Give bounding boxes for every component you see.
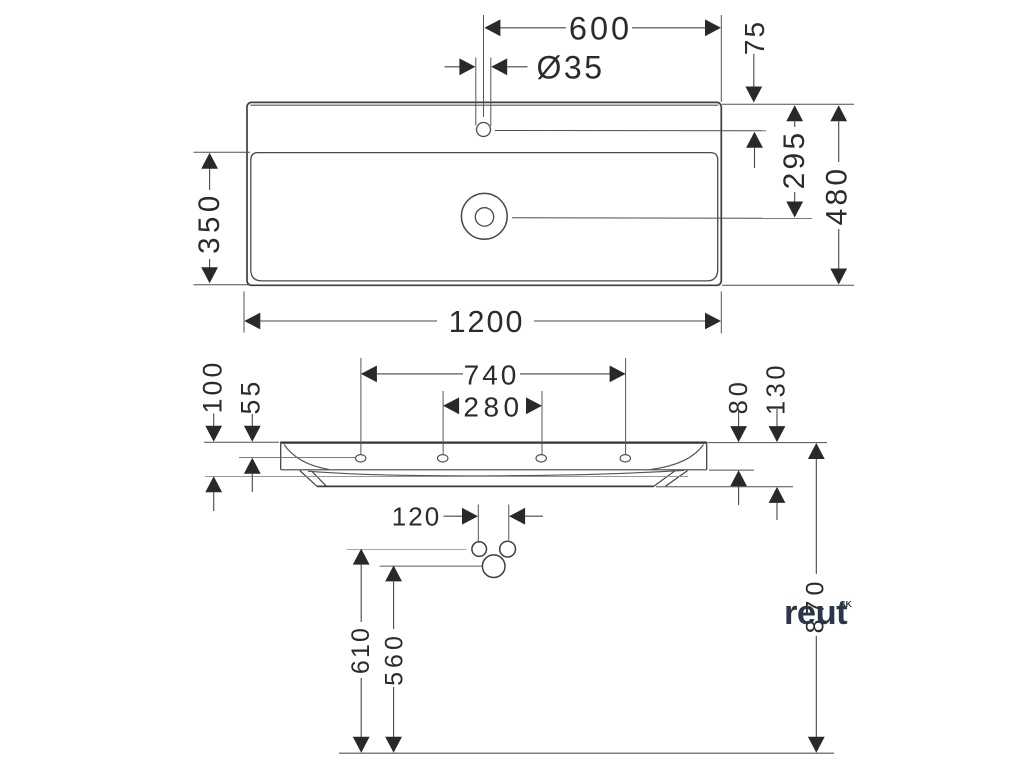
560 reference line (large siphon hole level) [380,565,483,567]
siphon small hole right [500,541,516,557]
dimension 480 (overall depth) [821,105,854,284]
dimension 610 (floor to upper siphon holes) [347,549,375,753]
dimension 870 (floor to basin top) [802,443,830,753]
basin bottom edge extension to the left [194,284,251,286]
svg-text:130: 130 [762,362,790,415]
long reference line under basin [205,475,688,477]
svg-text:1200: 1200 [449,305,525,339]
740 left extension line [360,358,362,454]
dimension 600 (faucet centre to right edge) [484,11,721,47]
base bottom line [317,485,654,487]
dimension 740 (outer tap holes spacing) [361,359,626,390]
dimension 560 (floor to large siphon hole) [380,565,408,752]
dimension 350 (bowl depth) [193,153,226,283]
120 left leader line [477,505,479,542]
740 right extension line [625,358,627,454]
dimension 100 (top to underside) [197,360,227,511]
dimension 55 (top to tap hole centre) [236,379,266,492]
dimension 280 (inner tap holes spacing) [443,391,542,422]
svg-text:600: 600 [569,11,632,47]
floor line [339,752,834,754]
faucet hole centre reference line to the right [495,130,766,132]
faucet hole Ø35 [477,123,491,137]
base left outer slant [300,471,317,487]
washbasin outer rim (plan view) [247,102,721,285]
svg-text:55: 55 [236,379,266,415]
svg-text:560: 560 [380,632,408,686]
washbasin rim inner top edge (plan view) [250,104,718,106]
1200 left extension line [243,292,245,333]
base left inner slant [312,472,327,487]
side view top surface line [281,441,708,443]
tap hole 2 (side view) [438,455,448,462]
svg-text:Ø35: Ø35 [537,50,605,86]
svg-text:740: 740 [464,359,520,390]
bowl front curve left [284,445,329,470]
svg-text:100: 100 [197,360,227,414]
faucet hole right leader line [490,58,492,127]
top surface extension left [204,441,279,443]
svg-text:reut: reut [784,594,848,632]
dimension 1200 (overall width) [244,305,721,339]
drain centre reference line to the right [512,217,812,220]
washbasin inner bowl edge (plan view) [251,153,718,281]
80 bottom reference line [709,469,754,471]
tap hole 4 (side view) [620,455,630,462]
1200 right extension line [720,292,722,334]
dimension 120 (siphon holes spacing) [392,501,543,531]
side view apron bottom line [281,469,707,471]
svg-text:SK: SK [840,599,853,609]
drain inner circle [475,208,493,226]
svg-text:80: 80 [725,378,753,414]
bowl underside curve [308,470,684,475]
tap hole 1 (side view) [356,455,366,462]
basin top edge extension to the right [722,103,854,105]
basin bottom edge extension to the right [722,284,854,286]
280 right extension line [541,391,543,454]
faucet hole left leader line [475,58,477,126]
bowl front curve right [651,445,704,470]
svg-text:75: 75 [739,20,770,55]
right edge extension line (top) [720,15,722,102]
svg-text:350: 350 [193,191,226,254]
tap hole 3 (side view) [536,455,546,462]
side view left edge [280,442,282,470]
120 right leader line [508,505,510,541]
130 bottom reference line [656,486,793,488]
tap hole centre line extended left [239,456,355,458]
svg-text:120: 120 [392,501,441,531]
svg-text:295: 295 [778,130,811,190]
side view right edge [706,442,708,470]
top surface extension right [708,442,827,444]
drain outer circle [461,193,507,239]
280 left extension line [442,391,444,454]
svg-text:610: 610 [347,626,375,674]
inner bowl top edge extension to the left [194,151,251,153]
dimension 130 (top to base bottom) [762,362,790,520]
svg-text:480: 480 [821,166,854,226]
watermark reut [784,594,853,632]
faucet centre line [483,15,485,117]
dimension 75 (back edge to faucet centre) [739,20,770,168]
base right outer slant [666,471,688,487]
610 reference line (upper siphon holes level) [347,548,467,550]
base right inner slant [653,471,674,486]
siphon small hole left [472,542,487,557]
dimension 80 (top to apron bottom) [725,378,753,505]
siphon large hole [482,555,505,578]
dimension Ø35 (faucet hole diameter) [445,50,605,86]
dimension 295 (back edge to drain centre) [778,105,811,217]
svg-text:280: 280 [463,391,523,422]
